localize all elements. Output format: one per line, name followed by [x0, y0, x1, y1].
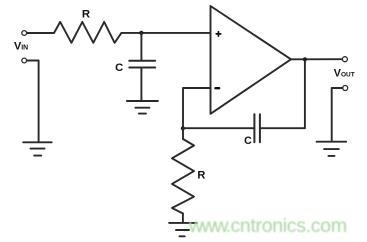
ground (below feedback resistor R) [169, 223, 197, 236]
wire: inverting input to feedback node [183, 88, 211, 128]
ground (below shunt capacitor C) [127, 101, 158, 114]
watermark www.cntronics.com [188, 215, 347, 237]
ground (VIN return) [23, 142, 52, 155]
wire: feedback node down to resistor R (feedback) [182, 128, 184, 139]
node: input node junction (R / C / op-amp +) [139, 31, 143, 35]
wire: capacitor C to ground [140, 68, 142, 101]
svg-text:C: C [115, 62, 123, 74]
op-amp - input pin mark [215, 87, 219, 89]
wire: VIN return terminal to ground [27, 61, 39, 143]
svg-text:C: C [244, 135, 252, 147]
resistor R (feedback, vertical) [172, 139, 194, 214]
op-amp U1 [211, 6, 292, 114]
node: output junction [303, 57, 307, 61]
wire: node down to capacitor C [140, 33, 142, 61]
terminal VIN (return, bottom) [22, 58, 27, 63]
svg-text:cntronics.com: cntronics.com [231, 215, 347, 237]
wire: resistor R to op-amp non-inverting input [121, 32, 210, 34]
wire: op-amp output to VOUT terminal [291, 58, 342, 60]
svg-text:R: R [197, 170, 205, 182]
terminal VIN (input, top) [22, 31, 27, 36]
wire: VOUT return terminal to ground [332, 88, 343, 142]
node: inverting/feedback node junction [181, 126, 185, 130]
capacitor C (feedback) [254, 114, 260, 142]
svg-text:www.: www. [188, 215, 230, 237]
terminal VOUT (return, bottom) [343, 86, 348, 91]
ground (VOUT return) [317, 142, 347, 156]
terminal VOUT (top) [342, 57, 347, 62]
resistor R (input, horizontal) [54, 22, 121, 43]
wire: VIN terminal to resistor R [27, 32, 54, 34]
svg-text:VIN: VIN [14, 41, 28, 53]
svg-text:VOUT: VOUT [334, 68, 355, 80]
op-amp + input pin mark [216, 32, 221, 36]
capacitor C (shunt, to ground) [129, 61, 155, 68]
svg-text:R: R [82, 8, 90, 20]
wire: feedback capacitor to output node [260, 59, 305, 128]
wire: feedback node to capacitor C (feedback) [183, 127, 254, 129]
wire: resistor R to ground [182, 214, 184, 223]
